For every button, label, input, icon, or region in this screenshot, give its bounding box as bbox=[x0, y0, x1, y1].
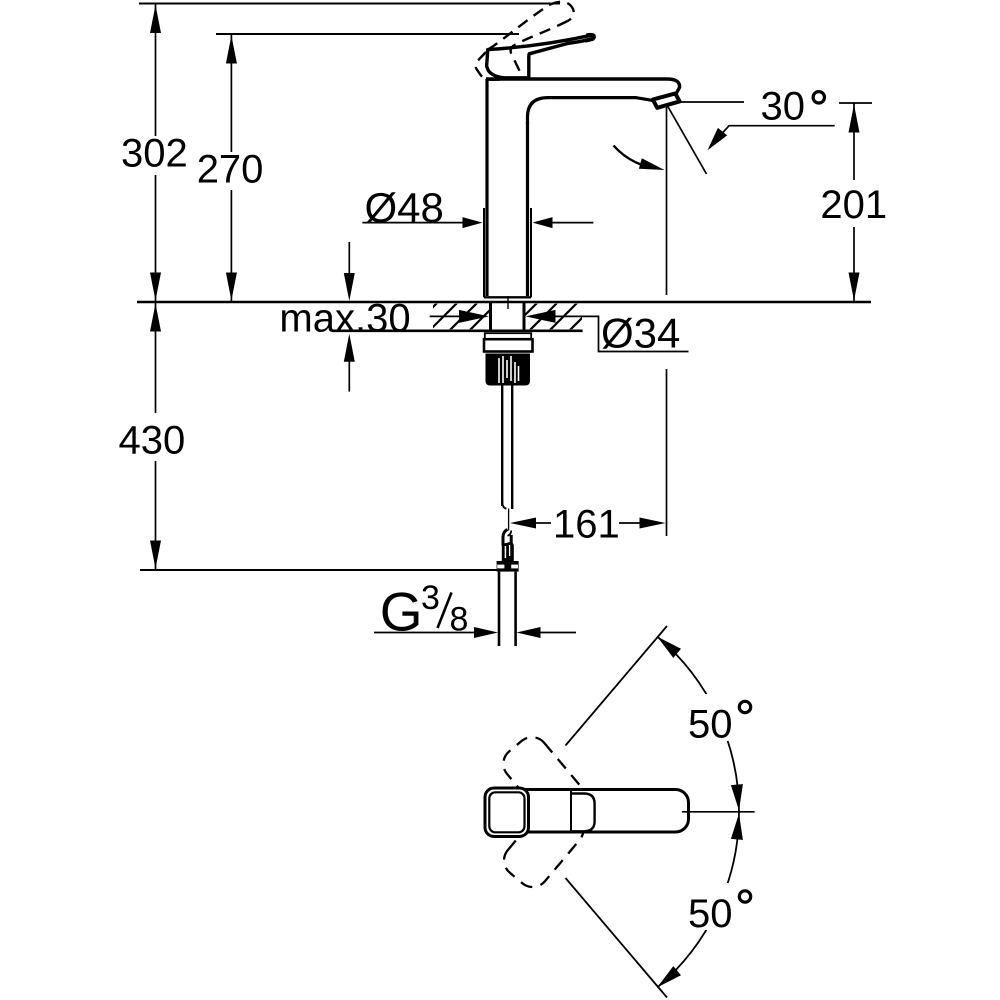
svg-text:161: 161 bbox=[553, 503, 620, 547]
svg-text:270: 270 bbox=[197, 148, 264, 192]
svg-text:Ø34: Ø34 bbox=[601, 310, 680, 357]
svg-text:201: 201 bbox=[820, 183, 887, 227]
svg-text:50: 50 bbox=[688, 892, 733, 936]
svg-text:3: 3 bbox=[421, 579, 440, 617]
svg-text:max.30: max.30 bbox=[279, 297, 410, 341]
svg-text:30: 30 bbox=[761, 85, 806, 129]
svg-text:430: 430 bbox=[119, 418, 186, 462]
svg-text:Ø48: Ø48 bbox=[365, 184, 444, 231]
svg-text:302: 302 bbox=[121, 132, 188, 176]
svg-text:50: 50 bbox=[688, 703, 733, 747]
svg-text:G: G bbox=[380, 581, 423, 643]
svg-text:8: 8 bbox=[450, 601, 469, 639]
